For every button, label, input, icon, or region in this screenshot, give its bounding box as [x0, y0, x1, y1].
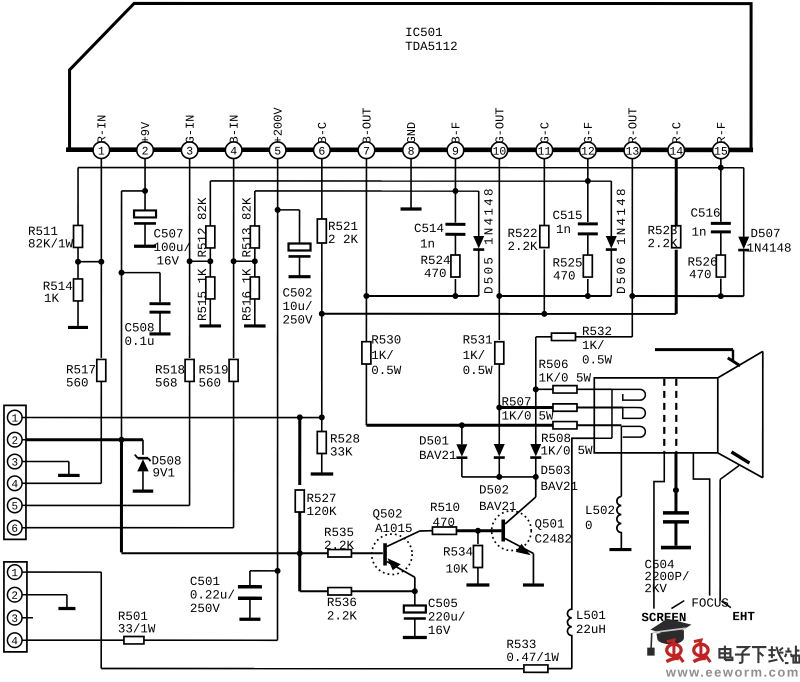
- wire G-F net line B R512 to D506: [210, 180, 611, 182]
- op-amp/IC U=IC501 TDA5112 body outline: [70, 3, 752, 150]
- connector P1 pin 2: [7, 432, 22, 447]
- svg-text:G-OUT: G-OUT: [493, 108, 507, 144]
- svg-text:470: 470: [689, 268, 712, 282]
- svg-text:0.47/1W: 0.47/1W: [506, 651, 559, 665]
- svg-text:C502: C502: [283, 286, 313, 300]
- svg-text:2: 2: [142, 146, 149, 159]
- wire R512 top: [209, 181, 211, 226]
- svg-text:C2482: C2482: [534, 533, 572, 547]
- capacitor C515: [578, 222, 598, 225]
- resistor R512: [206, 226, 215, 248]
- wire R530 down: [365, 364, 367, 425]
- wire C515-R525: [587, 234, 589, 255]
- resistor R521: [317, 219, 326, 243]
- wire pin9 through C514 top: [454, 159, 456, 223]
- svg-text:B-OUT: B-OUT: [360, 107, 374, 143]
- wire R528 to gnd: [321, 453, 323, 473]
- svg-text:4: 4: [230, 146, 237, 159]
- svg-text:2.2K: 2.2K: [508, 240, 539, 254]
- ground: [661, 546, 691, 550]
- wire R507 left bold: [499, 406, 553, 409]
- wire R532 left lead: [536, 336, 552, 338]
- svg-text:82K/1W: 82K/1W: [28, 237, 74, 251]
- connector P2 pin 4: [7, 633, 22, 648]
- wire to C502: [278, 209, 300, 211]
- svg-text:R518: R518: [155, 363, 185, 377]
- wire R523 to cathode line bold: [675, 250, 678, 314]
- wire L501 into neck: [594, 437, 612, 439]
- wire to Q501 base bold: [478, 529, 502, 532]
- wire R514 to ground: [77, 301, 79, 326]
- svg-text:470: 470: [553, 270, 576, 284]
- wire P1 pin3 to gnd: [26, 461, 69, 463]
- node R506 tap: [533, 386, 539, 392]
- svg-text:2.2K: 2.2K: [327, 609, 358, 623]
- wire to C501: [250, 570, 278, 572]
- svg-text:12: 12: [581, 146, 595, 159]
- node C501 tap: [275, 568, 281, 574]
- svg-text:10K: 10K: [445, 563, 468, 577]
- svg-text:G-C: G-C: [538, 122, 552, 144]
- capacitor C502: [289, 243, 311, 250]
- svg-text:R515 1K: R515 1K: [196, 268, 210, 321]
- svg-text:R532: R532: [582, 325, 612, 339]
- resistor R508: [553, 422, 577, 429]
- wire R531 to D502: [498, 364, 500, 444]
- svg-text:+200V: +200V: [272, 107, 286, 144]
- wire B-OUT drive line bold: [366, 424, 553, 427]
- capacitor C505: [404, 606, 426, 613]
- wire C514-R524: [454, 234, 456, 255]
- wire +9V vertical: [120, 191, 122, 440]
- svg-text:2: 2: [11, 591, 18, 603]
- svg-text:R506: R506: [538, 358, 568, 372]
- svg-text:1K/: 1K/: [371, 349, 394, 363]
- svg-text:B-C: B-C: [316, 122, 330, 144]
- svg-text:R524: R524: [421, 254, 451, 268]
- wire pin7 down: [365, 159, 367, 342]
- CRT bell bottom: [718, 453, 763, 478]
- node base line/R527: [297, 550, 303, 556]
- node R511/R514 junction: [75, 259, 81, 265]
- resistor R535: [328, 550, 352, 557]
- resistor R532: [551, 333, 575, 340]
- connector P1 6-pin box: [4, 405, 26, 539]
- pin 1 (R-IN): [93, 142, 110, 159]
- svg-text:1K/0: 1K/0: [540, 445, 570, 459]
- ground: [523, 583, 544, 586]
- pin 6 (B-C): [314, 142, 331, 159]
- pin 3 (G-IN): [181, 142, 198, 159]
- svg-text:220u/: 220u/: [428, 611, 466, 625]
- wire pin15 through C516 top: [720, 159, 722, 222]
- node Q501 collector tap: [533, 474, 539, 480]
- pin 7 (B-OUT): [358, 142, 375, 159]
- svg-text:1K/: 1K/: [463, 349, 486, 363]
- wire R513-R516: [254, 248, 256, 277]
- node R525 bottom: [585, 293, 591, 299]
- node G-IN junction: [187, 258, 193, 264]
- resistor R517: [97, 359, 106, 381]
- ground: [401, 207, 422, 210]
- svg-text:2 2K: 2 2K: [328, 233, 359, 247]
- svg-text:9: 9: [452, 146, 459, 159]
- svg-text:R528: R528: [330, 432, 360, 446]
- svg-text:R522: R522: [508, 227, 538, 241]
- svg-text:C515: C515: [553, 209, 583, 223]
- wire pin6 down: [321, 159, 323, 219]
- svg-text:R-IN: R-IN: [95, 115, 109, 144]
- wire R506 left lead: [536, 388, 553, 390]
- svg-text:4: 4: [11, 636, 18, 648]
- svg-text:R536: R536: [327, 596, 357, 610]
- svg-text:B-F: B-F: [449, 122, 463, 144]
- wire R522 to cathode line: [543, 250, 545, 314]
- svg-text:5: 5: [274, 146, 281, 159]
- capacitor C516: [711, 222, 731, 225]
- svg-text:470: 470: [424, 267, 447, 281]
- connector P1 pin 1: [7, 410, 22, 425]
- wire C505 lower: [414, 619, 416, 637]
- resistor R527: [295, 490, 304, 512]
- wire D505 anode: [478, 191, 480, 236]
- wire C505 top: [414, 591, 416, 605]
- resistor R519: [229, 359, 238, 381]
- wire pin1 down: [100, 159, 102, 358]
- wire R532 to R506/D503: [535, 337, 537, 444]
- svg-text:A1015: A1015: [375, 522, 413, 536]
- svg-text:D503: D503: [540, 464, 570, 478]
- resistor R511: [74, 225, 83, 247]
- wire R508 to CRT cathode3: [577, 424, 621, 426]
- wire pin2 gnd stub: [66, 595, 68, 608]
- svg-text:100u/: 100u/: [154, 241, 192, 255]
- resistor R507: [553, 404, 577, 411]
- pin 2 (+9V): [137, 142, 154, 159]
- wire junction to pin1: [78, 261, 101, 263]
- wire down to bottom line: [100, 572, 102, 668]
- wire R525 bottom: [587, 279, 589, 296]
- anode slash mark top: [728, 358, 740, 366]
- diode D506: [606, 236, 617, 249]
- svg-text:1K/: 1K/: [582, 339, 605, 353]
- wire P2 pin2 to gnd: [27, 594, 67, 596]
- ground: [200, 324, 222, 327]
- svg-text:www.eeworm.com: www.eeworm.com: [665, 665, 800, 677]
- wire heater feed inside neck: [611, 389, 613, 438]
- resistor R518: [185, 359, 194, 381]
- node R527 top: [297, 414, 303, 420]
- pointer slash EHT: [721, 601, 731, 608]
- node C502 tap: [275, 207, 281, 213]
- node cathode line/B-C: [319, 311, 325, 317]
- node +9V join: [118, 437, 124, 443]
- svg-text:R527: R527: [306, 492, 336, 506]
- wire R527 bottom bold: [298, 512, 301, 553]
- svg-text:R517: R517: [66, 363, 96, 377]
- svg-text:D506 1N4148: D506 1N4148: [615, 186, 629, 294]
- svg-text:1: 1: [11, 568, 18, 580]
- node +9V tap: [142, 188, 148, 194]
- svg-text:8: 8: [408, 146, 415, 159]
- svg-text:9V1: 9V1: [152, 466, 175, 480]
- wire R534 to gnd: [477, 568, 479, 584]
- diode D507: [738, 237, 749, 250]
- CRT screen face: [762, 351, 764, 477]
- svg-text:10u/: 10u/: [283, 300, 313, 314]
- pin 12 (G-F): [580, 142, 597, 159]
- svg-text:D501: D501: [419, 435, 449, 449]
- resistor R523: [672, 226, 681, 248]
- wire R511-R514: [77, 247, 79, 279]
- svg-text:2.2K: 2.2K: [648, 237, 679, 251]
- node Q502 emitter/C505: [412, 588, 418, 594]
- node G-C join: [541, 311, 547, 317]
- svg-text:0.5W: 0.5W: [463, 364, 494, 378]
- resistor R528: [317, 431, 326, 453]
- capacitor C507: [134, 210, 156, 217]
- pin 9 (B-F): [447, 142, 464, 159]
- resistor R525: [583, 255, 592, 277]
- IC501 bottom edge pin bar: [66, 147, 753, 152]
- pin 13 (R-OUT): [624, 142, 641, 159]
- node pin9/C514: [452, 188, 458, 194]
- node C508 tap: [119, 270, 125, 276]
- wire to connector P1 pin4: [26, 482, 101, 484]
- inductor L502: [617, 497, 622, 549]
- ground: [311, 472, 334, 475]
- resistor R516: [250, 277, 259, 299]
- svg-text:1K/0 5W: 1K/0 5W: [538, 372, 591, 386]
- pin 10 (G-OUT): [491, 142, 508, 159]
- node B-IN junction: [231, 258, 237, 264]
- wire C504 lower bold: [674, 522, 677, 546]
- resistor R522: [540, 226, 549, 248]
- svg-text:0.1u: 0.1u: [124, 335, 154, 349]
- svg-text:R531: R531: [463, 334, 493, 348]
- svg-text:R-OUT: R-OUT: [626, 108, 640, 144]
- capacitor C514: [445, 223, 465, 226]
- svg-text:470: 470: [432, 516, 455, 530]
- wire Q501 collector up: [535, 477, 537, 497]
- svg-text:R534: R534: [443, 546, 473, 560]
- connector P1 pin 3: [7, 454, 22, 469]
- CRT picture tube neck box: [594, 378, 718, 453]
- ground: [68, 326, 88, 329]
- diode D505: [473, 236, 484, 249]
- wire R532 right lead: [576, 336, 633, 338]
- connector P2 pin 2: [7, 587, 22, 602]
- C501 terminal bar: [239, 618, 260, 621]
- node R512/R515 junction: [207, 258, 213, 264]
- svg-text:13: 13: [625, 146, 639, 159]
- wire R box bottom: [632, 295, 743, 297]
- wire D506 cathode: [610, 251, 612, 297]
- svg-text:2: 2: [11, 436, 18, 448]
- svg-text:6: 6: [11, 524, 18, 536]
- svg-text:B-IN: B-IN: [228, 115, 242, 144]
- wire to C508: [122, 272, 161, 274]
- svg-text:10: 10: [492, 146, 506, 159]
- grid G1 dashed: [663, 379, 665, 452]
- resistor R515: [206, 277, 215, 299]
- node diode common: [496, 474, 502, 480]
- svg-text:C516: C516: [691, 207, 721, 221]
- wire R518 down: [189, 381, 191, 505]
- pin 14 (R-C): [668, 142, 685, 159]
- wire R510 to base node bold: [456, 529, 478, 532]
- wire to R512/R515: [190, 260, 211, 262]
- svg-text:C508: C508: [125, 321, 155, 335]
- anode slash mark EHT: [731, 452, 749, 463]
- zener diode D508: [138, 457, 148, 460]
- wire pin13 to R532: [631, 296, 633, 337]
- grid G2 dashed: [675, 379, 677, 452]
- svg-text:0.5W: 0.5W: [371, 364, 402, 378]
- wire G1 to SCREEN: [654, 453, 664, 609]
- wire R535 to Q502 base: [351, 552, 382, 554]
- svg-text:R507: R507: [501, 396, 531, 410]
- wire D502 to common: [498, 459, 500, 477]
- svg-text:D502: D502: [479, 484, 509, 498]
- connector P2 4-pin box: [4, 562, 27, 652]
- svg-text:L502: L502: [585, 504, 615, 518]
- svg-text:EHT: EHT: [732, 610, 755, 624]
- wire G2 to C504 bold: [674, 453, 677, 512]
- wire D507 anode: [743, 168, 745, 237]
- wire anode top lead bold: [655, 348, 733, 351]
- svg-text:1N4148: 1N4148: [747, 242, 792, 256]
- svg-text:R523: R523: [648, 224, 678, 238]
- svg-text:16V: 16V: [157, 254, 180, 268]
- wire +9V branch: [122, 190, 146, 192]
- svg-text:2KV: 2KV: [644, 582, 667, 596]
- transistor Q501 C2482: [492, 511, 532, 551]
- wire R516 to gnd: [254, 299, 256, 325]
- svg-text:568: 568: [155, 376, 178, 390]
- wire C508 upper: [159, 273, 161, 303]
- wire pin14 down bold: [675, 159, 678, 226]
- wire pin2 down: [144, 159, 146, 211]
- svg-text:3: 3: [186, 146, 193, 159]
- wire P2 pin1: [27, 571, 101, 573]
- svg-text:560: 560: [66, 376, 89, 390]
- wire pin3 down: [189, 159, 191, 358]
- resistor R513: [250, 226, 259, 248]
- connector P1 pin 5: [7, 498, 22, 513]
- wire R524 bottom: [454, 279, 456, 296]
- wire D507 cathode: [743, 251, 745, 296]
- wire R533 to L501: [548, 668, 572, 670]
- resistor R530: [362, 342, 371, 364]
- ground: [244, 324, 265, 327]
- wire pin8 to gnd: [410, 159, 412, 208]
- svg-text:5W: 5W: [577, 444, 593, 458]
- svg-text:4: 4: [11, 479, 18, 491]
- wire to L502: [620, 453, 622, 497]
- svg-text:R-F: R-F: [715, 122, 729, 144]
- wire D501 cathode: [461, 459, 463, 477]
- svg-text:R519: R519: [198, 363, 228, 377]
- svg-text:D507: D507: [751, 227, 781, 241]
- resistor R514: [74, 279, 83, 301]
- svg-text:BAV21: BAV21: [419, 449, 457, 463]
- diode D501: [456, 444, 467, 457]
- node pin15/R-F: [718, 165, 724, 171]
- pointer slash screen: [671, 601, 684, 609]
- resistor R506: [553, 386, 577, 393]
- resistor R510: [432, 527, 456, 534]
- watermark site name characters dianzixiazaizhan: [719, 646, 732, 661]
- ground: [133, 490, 154, 493]
- svg-text:5: 5: [11, 501, 18, 513]
- resistor R531: [495, 342, 504, 364]
- resistor R536: [328, 588, 352, 595]
- wire pin10 down: [498, 159, 500, 340]
- svg-text:14: 14: [669, 146, 683, 159]
- svg-text:R510: R510: [430, 501, 460, 515]
- wire P2 pin3 stub: [27, 617, 33, 619]
- wire R515 to gnd: [209, 299, 211, 325]
- svg-text:3: 3: [11, 457, 18, 469]
- diode D502: [494, 444, 505, 457]
- resistor R533: [524, 665, 548, 672]
- wire D506 anode: [610, 181, 612, 236]
- wire P1 pin1 to R527/R528: [26, 417, 322, 419]
- svg-text:R530: R530: [371, 333, 401, 347]
- C502 terminal bar: [289, 275, 311, 278]
- svg-text:1n: 1n: [692, 226, 707, 240]
- node D501 top: [459, 422, 465, 428]
- svg-text:C507: C507: [154, 227, 184, 241]
- svg-text:6: 6: [318, 146, 325, 159]
- wire C501 upper: [249, 571, 251, 585]
- wire R507 to CRT cathode2: [577, 407, 623, 409]
- wire C508 lower: [159, 312, 161, 333]
- wire C516-R526: [720, 232, 722, 255]
- svg-text:11: 11: [537, 146, 551, 159]
- capacitor C504: [663, 511, 689, 514]
- wire B-F net line C R513 to D505: [255, 190, 479, 192]
- svg-text:22uH: 22uH: [576, 623, 606, 637]
- svg-text:33K: 33K: [330, 445, 353, 459]
- svg-text:C514: C514: [414, 222, 444, 236]
- svg-text:IC501: IC501: [405, 26, 443, 40]
- wire R521 to R528: [321, 243, 323, 431]
- pin 4 (B-IN): [225, 142, 242, 159]
- CRT bell top: [718, 351, 763, 378]
- resistor R526: [716, 255, 725, 277]
- wire to connector P1 pin5: [26, 504, 190, 506]
- svg-text:250V: 250V: [283, 313, 314, 327]
- node R507 tap: [496, 405, 502, 411]
- transistor Q502 A1015: [372, 534, 412, 574]
- connector P1 pin 4: [7, 476, 22, 491]
- svg-text:D505 1N4148: D505 1N4148: [483, 186, 497, 294]
- wire C507 lower: [144, 223, 146, 245]
- inductor L501 22uH: [567, 438, 594, 668]
- wire cathode bias line: [322, 313, 676, 315]
- wire R536 to emitter node: [351, 590, 414, 592]
- wire down to R511: [77, 168, 79, 226]
- svg-text:1n: 1n: [420, 238, 435, 252]
- pin 8 (GND): [403, 142, 420, 159]
- node R526 bottom: [718, 293, 724, 299]
- wire +200V rail: [277, 159, 279, 640]
- node G box bottom left: [496, 293, 502, 299]
- wire to R536: [300, 590, 328, 592]
- svg-text:Q502: Q502: [372, 507, 402, 521]
